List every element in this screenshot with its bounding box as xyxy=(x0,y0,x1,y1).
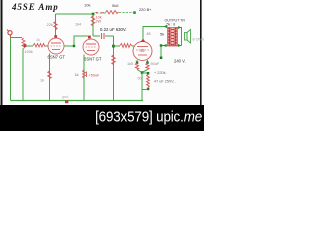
tube V1 plate line xyxy=(51,42,61,44)
node arrow secondary bottom xyxy=(178,44,182,47)
svg-text:1k: 1k xyxy=(75,73,79,77)
wire V3 plate up and to transformer xyxy=(143,27,168,40)
wire input jack to pot xyxy=(11,37,22,39)
resistor R grid stopper xyxy=(120,44,132,48)
wire stopper to tube V3 xyxy=(132,45,134,47)
svg-text:0.22 uF 630V.: 0.22 uF 630V. xyxy=(100,27,127,32)
svg-text:1k5: 1k5 xyxy=(127,62,133,66)
wire grid R1 to tube V1 xyxy=(47,45,49,47)
tube V2 cathode xyxy=(87,50,95,52)
svg-text:5k: 5k xyxy=(160,32,164,37)
wire V1 plate to V2 xyxy=(64,36,88,46)
svg-text:1k4: 1k4 xyxy=(75,23,81,27)
wire cap branch top xyxy=(142,72,148,74)
wire tube3 cathode left stub xyxy=(136,60,138,63)
node pot wiper xyxy=(24,44,27,47)
footer text xyxy=(0,108,202,125)
node rail end xyxy=(133,11,136,14)
wire grid node drop to ground xyxy=(113,36,115,101)
node corner xyxy=(73,45,75,47)
node left stub xyxy=(136,61,139,64)
resistor R cathode2 with bypass cap xyxy=(83,70,87,78)
svg-text:45: 45 xyxy=(147,32,151,36)
resistor R plate2 (vertical zigzag) xyxy=(91,16,94,26)
node grid branch xyxy=(112,45,115,48)
tube V2 circle xyxy=(83,39,99,55)
wire cap bottom return xyxy=(142,89,148,91)
tube V3 grid dashes xyxy=(136,49,149,51)
resistor R grid-leak (vertical zigzag) xyxy=(112,55,115,65)
wire cap to grid node xyxy=(105,35,114,37)
transformer T1 core box xyxy=(168,28,178,47)
tube V3 plate line xyxy=(137,46,148,48)
node below cap xyxy=(147,88,150,91)
svg-text:+ 220k.: + 220k. xyxy=(154,71,167,75)
tube V3 circle xyxy=(133,42,152,61)
wire tube2 cathode drop xyxy=(83,55,85,101)
svg-text:5k : 8: 5k : 8 xyxy=(167,23,176,27)
node rail/R2 junction xyxy=(92,13,95,16)
svg-text:45SE Amp: 45SE Amp xyxy=(11,2,59,12)
svg-text:100k: 100k xyxy=(25,50,33,54)
node tube2 top xyxy=(88,36,91,39)
svg-text:10k: 10k xyxy=(84,3,90,8)
footer bar xyxy=(0,105,204,131)
tube V3 cathode xyxy=(138,54,147,56)
tube V1 circle xyxy=(48,38,64,54)
resistor R grid1 xyxy=(33,44,47,48)
wire primary bottom drop xyxy=(160,46,162,59)
capacitor C filter xyxy=(147,75,150,88)
wire transformer secondary top xyxy=(178,28,182,46)
wire ground bus xyxy=(11,100,144,102)
wire rail after resistor xyxy=(119,12,133,14)
left border xyxy=(1,0,3,105)
node above cap xyxy=(147,72,150,75)
svg-text:6SN7 GT: 6SN7 GT xyxy=(84,57,102,62)
svg-text:240 V.: 240 V. xyxy=(174,59,186,64)
wire cathode3 merge xyxy=(137,70,148,73)
capacitor C coupling xyxy=(102,33,105,39)
svg-text:5k6: 5k6 xyxy=(112,3,119,8)
node primary bottom end xyxy=(160,57,163,60)
speaker SP1 xyxy=(185,30,191,44)
node arrow into transformer top xyxy=(164,25,168,28)
resistor R cathode3b xyxy=(146,63,149,70)
node arrow primary bottom xyxy=(163,44,167,47)
tube V1 cathode xyxy=(52,49,60,51)
node arrow secondary top xyxy=(178,26,182,29)
svg-text:2W: 2W xyxy=(96,20,102,24)
wire tube3 cathode right stub xyxy=(147,60,149,63)
wire pot bottom to ground xyxy=(22,49,24,101)
node tube V3 top arrow xyxy=(141,39,146,43)
input jack J1 xyxy=(8,31,12,35)
resistor R cathode1 xyxy=(48,71,51,79)
svg-text:50: 50 xyxy=(138,77,142,81)
wire tube1 plate drop xyxy=(55,14,57,39)
node primary bottom corner xyxy=(160,44,163,47)
wire rail right segment xyxy=(96,12,106,14)
svg-text:6SN7 GT: 6SN7 GT xyxy=(48,55,66,60)
wire cathode3 main drop xyxy=(141,72,143,101)
wire plate R2 drop xyxy=(92,14,94,36)
tube V2 plate line xyxy=(86,43,96,45)
svg-text:220 B+: 220 B+ xyxy=(139,7,152,12)
wire node to cap xyxy=(93,35,100,37)
svg-text:1k: 1k xyxy=(36,38,40,42)
tube V1 grid dashes xyxy=(51,45,62,47)
resistor R rail (horizontal zigzag) xyxy=(106,11,119,15)
svg-text:8 Ohm: 8 Ohm xyxy=(193,38,204,42)
tube V2 grid dashes xyxy=(86,46,97,48)
resistor R cathode3a xyxy=(135,63,138,70)
svg-text:gnd.: gnd. xyxy=(62,95,69,99)
svg-text:45: 45 xyxy=(140,48,146,53)
wire wiper to grid R xyxy=(27,45,34,47)
svg-text:47 uF 250V...: 47 uF 250V... xyxy=(154,80,176,84)
resistor R plate1 (vertical zigzag) xyxy=(54,22,57,30)
wire grid node to grid stopper xyxy=(114,45,121,47)
ground symbol xyxy=(65,100,68,103)
wire rail red dashes xyxy=(96,12,105,14)
svg-text:50uF: 50uF xyxy=(151,62,160,66)
potentiometer VR1 xyxy=(22,38,25,49)
svg-text:+50uF: +50uF xyxy=(89,74,101,78)
right border xyxy=(200,0,202,105)
svg-text:1k: 1k xyxy=(40,79,44,83)
svg-text:22k: 22k xyxy=(47,22,53,27)
wire transformer bottom xyxy=(161,45,182,47)
node cap branch top xyxy=(141,71,144,74)
node right stub xyxy=(146,61,149,64)
wire tube1 cathode drop xyxy=(49,54,51,101)
wire B+ rail top xyxy=(56,13,94,15)
wire jack ground drop xyxy=(10,38,12,101)
node tube1 top xyxy=(54,35,57,38)
